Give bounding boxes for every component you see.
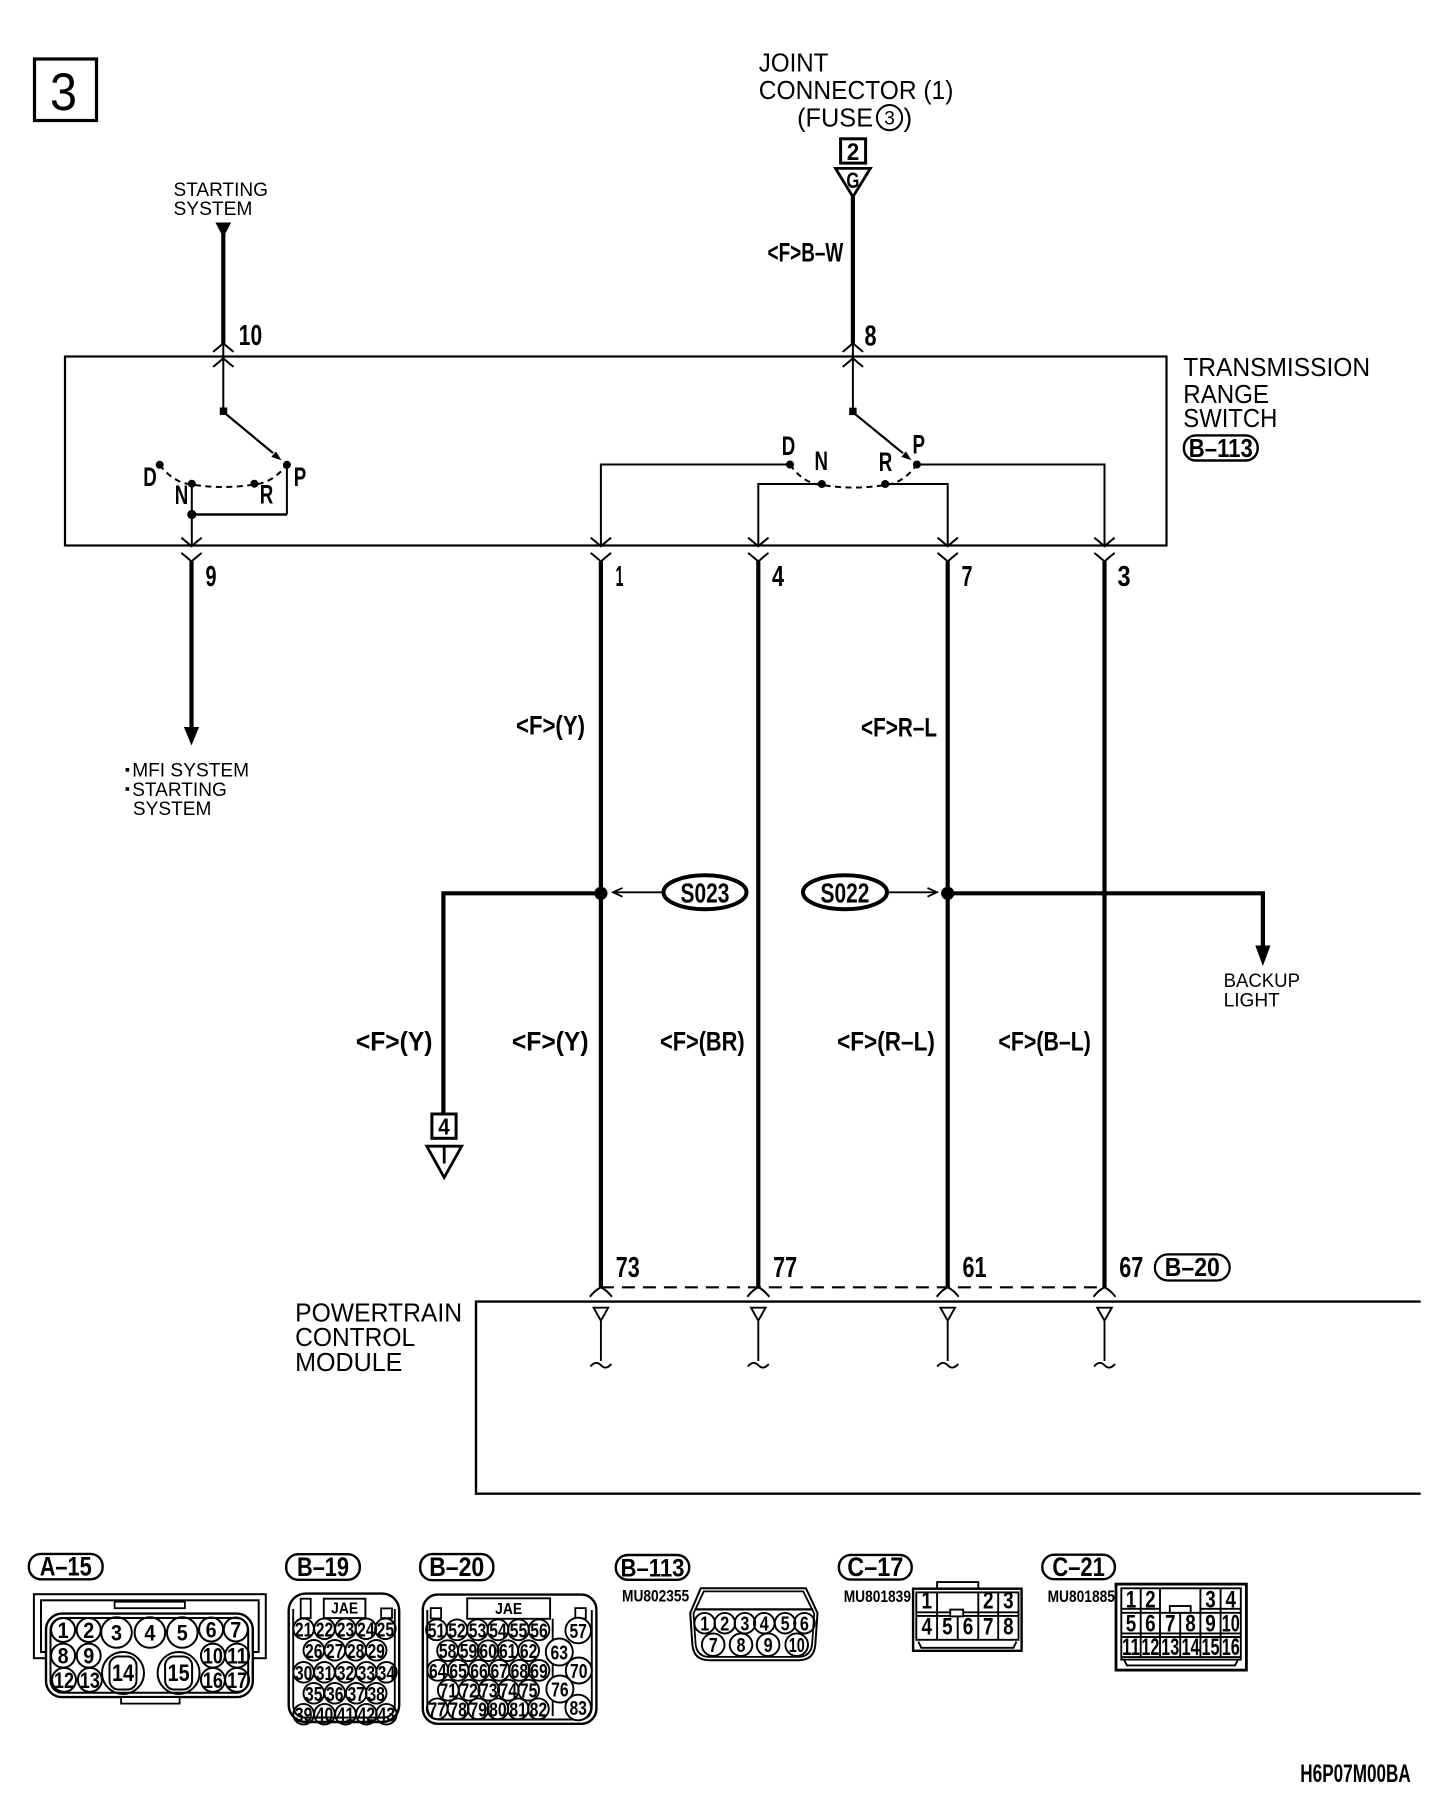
A-15 cavity 16 [201, 1668, 225, 1693]
svg-text:67: 67 [1119, 1252, 1143, 1284]
A-15 cavity 2 [77, 1618, 101, 1643]
wire pin 3 riser to PCM [1102, 562, 1106, 1288]
B-20 cavity 60 [478, 1640, 499, 1663]
junction on N wire [187, 510, 196, 519]
svg-text:3: 3 [884, 108, 895, 129]
wire end marks pin 77 [747, 1287, 769, 1297]
B-20 cavity 76 [546, 1676, 573, 1703]
svg-text:10: 10 [203, 1644, 223, 1669]
svg-text:5: 5 [942, 1614, 953, 1641]
svg-text:B–20: B–20 [429, 1552, 484, 1582]
svg-text:11: 11 [1122, 1634, 1140, 1661]
svg-text:38: 38 [367, 1683, 385, 1706]
B-19 cavity 26 [304, 1640, 325, 1663]
connector label B&#8211;19 [286, 1552, 360, 1582]
svg-text:13: 13 [1161, 1634, 1179, 1661]
svg-text:MU801839: MU801839 [844, 1587, 911, 1606]
svg-text:B–113: B–113 [1189, 435, 1253, 463]
svg-text:3: 3 [50, 63, 77, 122]
A-15 cavity 17 [225, 1668, 249, 1693]
svg-text:9: 9 [83, 1644, 94, 1669]
A-15 cavity 7 [224, 1618, 248, 1643]
B-113 cavity 6 [794, 1613, 815, 1636]
B-20 cavity 58 [437, 1640, 458, 1663]
B-20 cavity 70 [566, 1658, 592, 1684]
B-113 cavity 2 [715, 1613, 736, 1636]
svg-text:2: 2 [83, 1618, 94, 1643]
svg-text:53: 53 [469, 1619, 487, 1642]
B-19 cavity 42 [356, 1704, 377, 1727]
A-15 cavity 8 [51, 1644, 75, 1669]
B-19 cavity 32 [335, 1662, 356, 1685]
connector B-113 body [690, 1588, 817, 1660]
svg-text:3: 3 [1003, 1587, 1014, 1614]
svg-text:5: 5 [781, 1613, 790, 1636]
B-20 cavity 78 [448, 1698, 469, 1721]
A-15 cavity 15 [158, 1652, 200, 1694]
connector marks pin 1 [591, 538, 611, 547]
svg-text:29: 29 [367, 1640, 385, 1663]
connector marks pin 8 [843, 343, 863, 352]
svg-text:<F>R–L: <F>R–L [861, 713, 937, 743]
svg-text:77: 77 [773, 1252, 797, 1284]
svg-text:JOINT: JOINT [759, 47, 829, 77]
svg-text:4: 4 [921, 1614, 932, 1641]
svg-text:3: 3 [1205, 1586, 1216, 1613]
svg-text:12: 12 [54, 1668, 74, 1693]
svg-text:1: 1 [616, 561, 624, 593]
svg-text:36: 36 [326, 1683, 344, 1706]
svg-text:TRANSMISSION: TRANSMISSION [1183, 352, 1370, 382]
connector marks pin 9 [181, 538, 201, 547]
B-20 cavity 72 [459, 1680, 480, 1703]
wire P contact to pin 3 [917, 465, 1105, 547]
svg-text:76: 76 [551, 1679, 569, 1702]
svg-text:7: 7 [962, 561, 973, 593]
svg-text:6: 6 [800, 1613, 809, 1636]
PCM pin terminal 77 [748, 1308, 769, 1368]
link triangle below box 4 [427, 1146, 462, 1177]
wire R contact to pin 7 [885, 484, 948, 546]
wire P contact drop [286, 465, 288, 515]
svg-text:15: 15 [168, 1660, 190, 1687]
svg-text:S023: S023 [681, 878, 730, 909]
B-19 cavity 29 [366, 1640, 387, 1663]
B-20 cavity 51 [426, 1619, 447, 1642]
connector C-21 body [1116, 1584, 1246, 1670]
svg-text:C–17: C–17 [847, 1552, 903, 1582]
svg-text:(FUSE: (FUSE [797, 102, 873, 132]
svg-text:16: 16 [1222, 1634, 1240, 1661]
connector label B&#8211;113 [616, 1554, 689, 1582]
svg-text:B–20: B–20 [1165, 1252, 1220, 1282]
B-113 cavity 7 [702, 1633, 725, 1657]
B-20 cavity 80 [488, 1698, 509, 1721]
svg-text:D: D [143, 462, 157, 492]
svg-text:MU802355: MU802355 [622, 1586, 689, 1605]
svg-text:26: 26 [305, 1640, 323, 1663]
arrow S022 to junction [887, 888, 937, 897]
svg-text:<F>(Y): <F>(Y) [512, 1027, 589, 1057]
PCM pin terminal 61 [937, 1308, 958, 1368]
svg-text:39: 39 [295, 1704, 313, 1727]
svg-text:1: 1 [1126, 1586, 1137, 1613]
svg-text:2: 2 [983, 1587, 994, 1614]
B-20 cavity 53 [467, 1619, 488, 1642]
svg-text:JAE: JAE [495, 1601, 522, 1618]
connector label B&#8211;20 [1155, 1252, 1230, 1282]
wire D contact to pin 1 [601, 465, 790, 547]
sheet number box 3 [35, 59, 97, 122]
svg-text:B–113: B–113 [621, 1554, 685, 1582]
label POWERTRAIN CONTROL MODULE [295, 1298, 462, 1377]
svg-text:15: 15 [1202, 1634, 1220, 1661]
svg-text:H6P07M00BA: H6P07M00BA [1300, 1760, 1411, 1788]
B-19 cavity 21 [293, 1618, 314, 1641]
svg-text:81: 81 [509, 1698, 527, 1721]
B-19 cavity 24 [356, 1618, 377, 1641]
A-15 cavity 14 [102, 1652, 144, 1694]
svg-text:JAE: JAE [331, 1601, 358, 1618]
svg-text:4: 4 [144, 1621, 156, 1646]
wire pin 7 riser to PCM [946, 562, 950, 1288]
B-19 cavity 27 [325, 1640, 346, 1663]
B-20 cavity 61 [497, 1640, 518, 1663]
B-20 cavity 79 [468, 1698, 489, 1721]
svg-text:70: 70 [570, 1660, 588, 1683]
svg-text:40: 40 [316, 1704, 334, 1727]
svg-text:1: 1 [700, 1613, 709, 1636]
svg-text:77: 77 [428, 1698, 446, 1721]
svg-text:LIGHT: LIGHT [1224, 989, 1280, 1011]
left switch pivot junction [220, 408, 227, 415]
splice tag S022 [803, 875, 887, 909]
A-15 cavity 6 [199, 1618, 223, 1643]
svg-text:SWITCH: SWITCH [1183, 403, 1277, 433]
svg-text:16: 16 [203, 1668, 223, 1693]
svg-text:10: 10 [239, 320, 262, 352]
svg-text:<F>(BR): <F>(BR) [660, 1027, 745, 1057]
arrow S023 to junction [613, 888, 663, 897]
svg-text:11: 11 [227, 1644, 247, 1669]
svg-text:D: D [782, 431, 796, 461]
B-19 cavity 34 [376, 1662, 397, 1685]
right switch contact N [818, 480, 826, 488]
B-19 cavity 39 [293, 1704, 314, 1727]
junction S022 [941, 887, 954, 900]
svg-text:9: 9 [206, 561, 217, 593]
svg-text:N: N [815, 446, 829, 476]
right switch pivot junction [849, 408, 856, 415]
wire pin 10 into switch [222, 343, 224, 411]
wire branch to link 4 [443, 893, 601, 1112]
svg-text:8: 8 [58, 1644, 69, 1669]
svg-text:R: R [879, 447, 893, 477]
svg-text:<F>(R–L): <F>(R–L) [837, 1027, 935, 1057]
svg-text:14: 14 [1182, 1634, 1200, 1661]
B-20 cavity 59 [458, 1640, 479, 1663]
connector label C&#8211;21 [1042, 1552, 1115, 1582]
B-19 cavity 23 [335, 1618, 356, 1641]
svg-text:27: 27 [326, 1640, 344, 1663]
svg-text:3: 3 [1118, 561, 1131, 593]
B-113 cavity 5 [775, 1613, 796, 1636]
connector label C&#8211;17 [839, 1552, 912, 1582]
svg-text:<F>(Y): <F>(Y) [516, 711, 585, 741]
B-19 cavity 31 [314, 1662, 335, 1685]
label STARTING SYSTEM [174, 179, 269, 220]
B-20 cavity 74 [498, 1680, 519, 1703]
svg-text:2: 2 [847, 139, 860, 166]
wire N contact to pin 9 [191, 484, 193, 546]
A-15 cavity 1 [51, 1618, 75, 1643]
connector B-19 body [289, 1594, 400, 1722]
B-113 cavity 4 [754, 1613, 775, 1636]
B-19 cavity 40 [314, 1704, 335, 1727]
A-15 cavity 5 [167, 1617, 198, 1648]
svg-text:7: 7 [230, 1618, 241, 1643]
svg-text:2: 2 [720, 1613, 729, 1636]
svg-text:43: 43 [378, 1704, 396, 1727]
svg-text:2: 2 [1145, 1586, 1156, 1613]
left switch contact P [283, 461, 291, 469]
B-19 cavity 30 [293, 1662, 314, 1685]
svg-text:4: 4 [1225, 1586, 1236, 1613]
svg-text:79: 79 [470, 1698, 488, 1721]
connector label B&#8211;20 [420, 1552, 493, 1582]
svg-text:52: 52 [448, 1619, 466, 1642]
left switch dashed arc [160, 465, 287, 487]
wire pin 8 into switch [852, 343, 854, 411]
svg-text:10: 10 [789, 1634, 805, 1657]
svg-text:37: 37 [347, 1683, 365, 1706]
connector B-20 body [423, 1595, 597, 1724]
B-20 cavity 69 [529, 1660, 550, 1683]
svg-text:23: 23 [337, 1618, 355, 1641]
svg-text:35: 35 [305, 1683, 323, 1706]
svg-text:25: 25 [377, 1618, 395, 1641]
left switch contact D [156, 461, 164, 469]
svg-text:5: 5 [177, 1621, 188, 1646]
B-20 cavity 82 [528, 1698, 549, 1721]
connector C-17 body [913, 1582, 1022, 1651]
B-20 cavity 57 [565, 1618, 591, 1644]
connector marks pin 10 [213, 343, 233, 352]
right switch contact P [913, 461, 921, 469]
wire joint connector to pin 8 [851, 197, 855, 343]
svg-text:73: 73 [616, 1252, 640, 1284]
svg-text:56: 56 [530, 1619, 548, 1642]
wire P to N link [192, 513, 287, 515]
svg-text:33: 33 [358, 1662, 376, 1685]
svg-text:30: 30 [295, 1662, 313, 1685]
B-20 cavity 81 [508, 1698, 529, 1721]
svg-text:12: 12 [1141, 1634, 1159, 1661]
B-20 cavity 66 [469, 1660, 490, 1683]
svg-text:31: 31 [316, 1662, 334, 1685]
B-20 cavity 54 [488, 1619, 509, 1642]
svg-text:P: P [294, 462, 307, 492]
svg-text:4: 4 [438, 1114, 450, 1140]
B-20 cavity 56 [529, 1619, 550, 1642]
B-19 cavity 37 [346, 1683, 367, 1706]
B-19 cavity 25 [375, 1618, 396, 1641]
svg-text:6: 6 [963, 1614, 974, 1641]
left switch contact N [188, 480, 196, 488]
A-15 cavity 10 [201, 1644, 225, 1669]
B-19 cavity 41 [335, 1704, 356, 1727]
link box 4 [432, 1114, 456, 1140]
wire pin 4 riser to PCM [756, 562, 760, 1288]
B-113 cavity 8 [730, 1633, 753, 1657]
svg-text:7: 7 [709, 1634, 718, 1657]
svg-text:4: 4 [772, 561, 784, 593]
svg-text:<F>(Y): <F>(Y) [356, 1027, 433, 1057]
svg-text:14: 14 [112, 1660, 135, 1687]
svg-text:17: 17 [227, 1668, 247, 1693]
svg-text:63: 63 [551, 1642, 569, 1665]
svg-text:42: 42 [358, 1704, 376, 1727]
svg-text:): ) [904, 102, 913, 132]
svg-text:21: 21 [295, 1618, 313, 1641]
connector marks pin 4 [748, 538, 768, 547]
svg-text:<F>(B–L): <F>(B–L) [998, 1027, 1091, 1057]
B-20 cavity 71 [438, 1680, 459, 1703]
svg-text:54: 54 [489, 1619, 507, 1642]
svg-text:41: 41 [337, 1704, 355, 1727]
A-15 cavity 11 [225, 1644, 249, 1669]
svg-text:34: 34 [378, 1662, 396, 1685]
powertrain control module box [476, 1302, 1421, 1494]
wire pin 1 riser to PCM [599, 562, 603, 1288]
svg-text:B–19: B–19 [297, 1552, 349, 1582]
B-19 cavity 35 [304, 1683, 325, 1706]
svg-text:C–21: C–21 [1052, 1552, 1105, 1582]
right switch contact R [881, 480, 889, 488]
svg-text:13: 13 [80, 1668, 100, 1693]
svg-text:78: 78 [449, 1698, 467, 1721]
B-20 cavity 67 [489, 1660, 510, 1683]
right switch contact D [786, 461, 794, 469]
svg-text:<F>B–W: <F>B–W [768, 238, 844, 268]
svg-text:3: 3 [111, 1621, 122, 1646]
PCM pin terminal 73 [590, 1308, 611, 1368]
svg-text:9: 9 [764, 1634, 773, 1657]
wire end marks pin 61 [937, 1287, 959, 1297]
svg-text:61: 61 [963, 1252, 987, 1284]
svg-text:80: 80 [489, 1698, 507, 1721]
svg-text:A–15: A–15 [40, 1552, 92, 1582]
joint connector triangle G [836, 168, 871, 197]
svg-text:8: 8 [1003, 1614, 1014, 1641]
wire end marks pin 67 [1094, 1287, 1116, 1297]
svg-text:24: 24 [357, 1618, 375, 1641]
B-20 cavity 63 [546, 1639, 573, 1666]
wire pin 9 to MFI system [189, 562, 193, 729]
svg-text:83: 83 [569, 1697, 587, 1720]
B-20 cavity 75 [518, 1680, 539, 1703]
transmission range switch box B-113 [65, 357, 1167, 546]
B-20 cavity 73 [478, 1680, 499, 1703]
wire N contact to pin 4 [758, 484, 822, 546]
A-15 cavity 3 [101, 1617, 132, 1648]
wire end marks pin 73 [590, 1287, 612, 1297]
arrow from starting system [215, 223, 231, 238]
svg-text:MODULE: MODULE [295, 1347, 402, 1377]
B-20 cavity 77 [427, 1698, 448, 1721]
B-19 cavity 22 [314, 1618, 335, 1641]
B-19 cavity 38 [366, 1683, 387, 1706]
label MFI SYSTEM / STARTING SYSTEM [126, 760, 250, 820]
left switch contact R [250, 480, 258, 488]
B-113 cavity 3 [735, 1613, 756, 1636]
svg-text:8: 8 [737, 1634, 746, 1657]
svg-text:32: 32 [337, 1662, 355, 1685]
B-113 cavity 10 [785, 1633, 808, 1657]
svg-text:4: 4 [760, 1613, 769, 1636]
svg-text:8: 8 [865, 320, 877, 352]
A-15 cavity 13 [78, 1668, 102, 1693]
svg-text:28: 28 [347, 1640, 365, 1663]
junction S023 [594, 887, 607, 900]
PCM pin terminal 67 [1094, 1308, 1115, 1368]
svg-text:1: 1 [921, 1587, 932, 1614]
svg-text:6: 6 [206, 1618, 217, 1643]
connector marks pin 3 [1094, 538, 1114, 547]
dashed connector line B-20 [601, 1286, 1105, 1288]
svg-text:51: 51 [428, 1619, 446, 1642]
B-20 cavity 62 [518, 1640, 539, 1663]
svg-text:SYSTEM: SYSTEM [174, 198, 253, 220]
A-15 cavity 4 [135, 1617, 166, 1648]
svg-text:55: 55 [510, 1619, 528, 1642]
B-20 cavity 65 [448, 1660, 469, 1683]
connector label A&#8211;15 [29, 1552, 103, 1582]
connector A-15 body [34, 1594, 266, 1703]
B-20 cavity 83 [565, 1695, 591, 1721]
svg-text:82: 82 [530, 1698, 548, 1721]
wire branch to backup light [948, 893, 1263, 947]
B-20 cavity 64 [427, 1660, 448, 1683]
B-113 cavity 9 [757, 1633, 780, 1657]
B-19 cavity 43 [376, 1704, 397, 1727]
label JOINT CONNECTOR (1) (FUSE 3) [759, 47, 954, 132]
svg-text:P: P [913, 430, 926, 460]
B-19 cavity 36 [325, 1683, 346, 1706]
B-19 cavity 33 [356, 1662, 377, 1685]
right switch arm [853, 412, 903, 453]
connector label B&#8211;113 [1184, 435, 1258, 463]
svg-text:7: 7 [983, 1614, 994, 1641]
wire starting system to pin 10 [221, 231, 225, 343]
A-15 cavity 9 [77, 1644, 101, 1669]
svg-text:57: 57 [569, 1620, 587, 1643]
svg-text:22: 22 [316, 1618, 334, 1641]
label BACKUP LIGHT [1224, 970, 1300, 1011]
label TRANSMISSION RANGE SWITCH [1183, 352, 1370, 433]
svg-text:3: 3 [740, 1613, 749, 1636]
svg-text:SYSTEM: SYSTEM [133, 798, 212, 820]
svg-text:S022: S022 [821, 878, 870, 909]
svg-text:CONNECTOR (1): CONNECTOR (1) [759, 75, 954, 105]
connector marks pin 7 [938, 538, 958, 547]
right switch dashed arc [790, 465, 917, 488]
B-20 cavity 68 [509, 1660, 530, 1683]
svg-text:MU801885: MU801885 [1048, 1587, 1115, 1606]
svg-text:G: G [846, 168, 859, 193]
left switch arm [224, 412, 274, 453]
B-19 cavity 28 [345, 1640, 366, 1663]
